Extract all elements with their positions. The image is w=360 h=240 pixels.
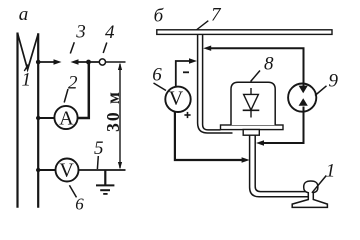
svg-text:а: а: [19, 4, 29, 25]
svg-text:V: V: [59, 160, 74, 182]
svg-text:6: 6: [152, 64, 162, 85]
svg-text:8: 8: [264, 54, 274, 75]
svg-text:5: 5: [94, 138, 104, 159]
svg-text:4: 4: [105, 22, 115, 43]
svg-text:А: А: [59, 108, 74, 130]
svg-text:V: V: [169, 87, 184, 109]
svg-text:3: 3: [75, 21, 86, 42]
svg-text:6: 6: [75, 195, 84, 214]
svg-text:30 м: 30 м: [103, 90, 123, 132]
svg-text:1: 1: [326, 160, 336, 181]
svg-text:1: 1: [22, 69, 32, 90]
svg-text:2: 2: [68, 72, 78, 93]
svg-text:9: 9: [329, 70, 339, 91]
svg-text:7: 7: [211, 4, 222, 25]
svg-text:б: б: [154, 6, 165, 27]
